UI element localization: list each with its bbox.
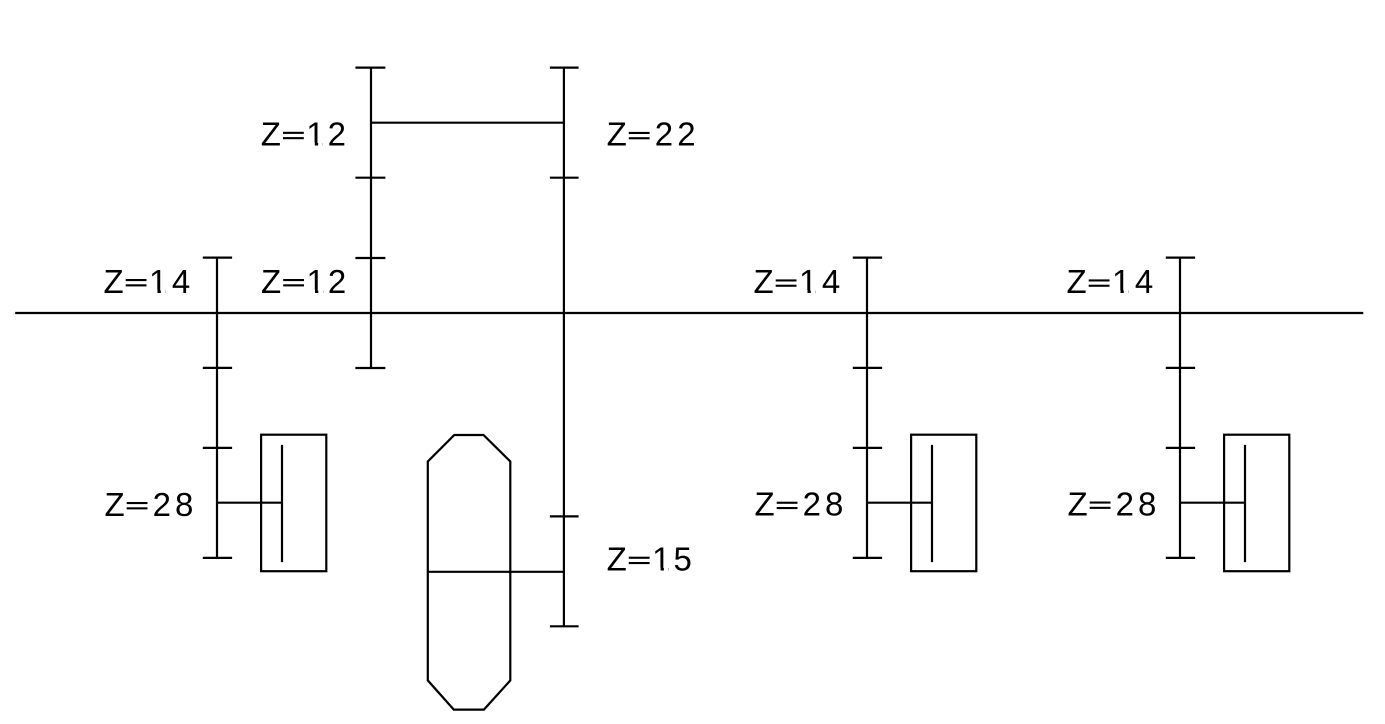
svg-text:Z: Z [105,486,128,523]
svg-text:Z: Z [755,486,778,523]
svg-text:15: 15 [652,541,695,578]
svg-text:Z: Z [607,541,630,578]
svg-text:12: 12 [306,116,349,153]
svg-text:14: 14 [799,263,845,300]
svg-text:12: 12 [307,263,350,300]
svg-text:Z: Z [607,116,630,153]
svg-text:Z: Z [261,116,284,153]
svg-text:22: 22 [655,116,700,153]
svg-text:Z: Z [1067,263,1090,300]
svg-text:28: 28 [1116,485,1161,522]
svg-text:Z: Z [261,263,284,300]
svg-text:28: 28 [803,486,848,523]
svg-text:14: 14 [1112,263,1158,300]
svg-text:28: 28 [153,486,198,523]
svg-text:Z: Z [104,263,127,300]
svg-text:Z: Z [754,263,777,300]
svg-text:Z: Z [1068,485,1091,522]
svg-text:14: 14 [149,263,195,300]
